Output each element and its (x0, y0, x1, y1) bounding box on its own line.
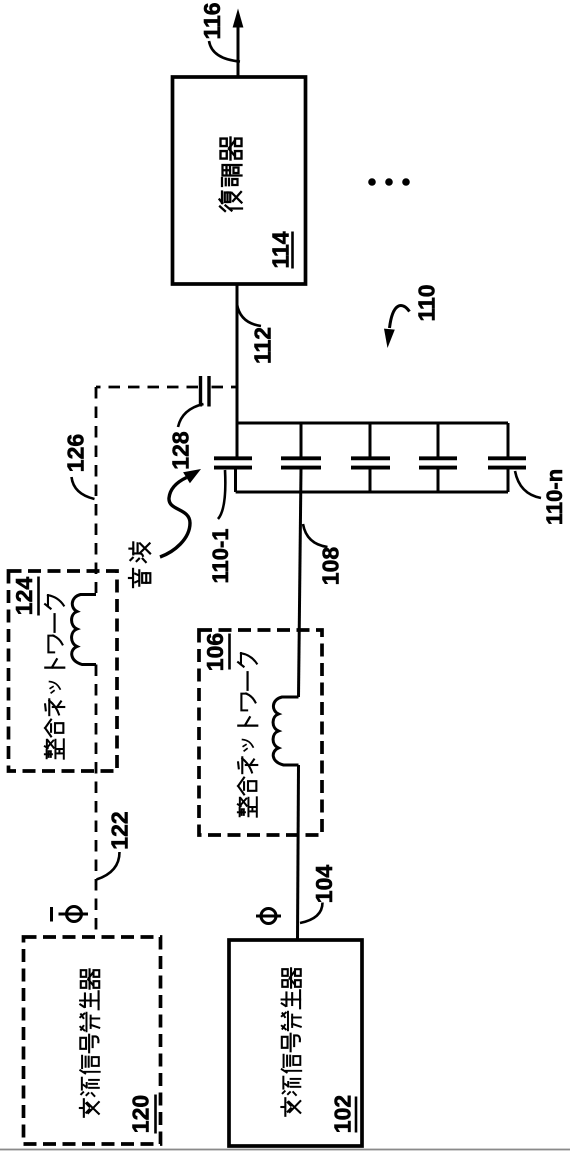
dashed wire 122 below L124 (95, 665, 98, 938)
svg-text:122: 122 (107, 811, 133, 849)
transducer element 110-1 bottom stub (234, 469, 237, 492)
transducer bottom bus wire (236, 491, 508, 494)
svg-text:106: 106 (202, 633, 228, 671)
acoustic wave squiggle arrow (160, 478, 190, 558)
leader to 110-n (515, 471, 541, 498)
svg-text:126: 126 (63, 434, 89, 472)
inductor L124 coil (72, 595, 96, 665)
curved arrow for 110 (390, 306, 410, 328)
matching network box 106 (199, 630, 322, 835)
svg-text:110-1: 110-1 (208, 528, 233, 583)
leader to 116 (209, 41, 240, 62)
wire 104 from L106 to generator 102 (298, 765, 299, 940)
AC signal generator box 102 (229, 940, 362, 1146)
transducer element 2 plates (281, 458, 321, 467)
arrowhead 116 (233, 9, 244, 28)
AC signal generator box 120 (24, 937, 161, 1144)
transducer top bus wire (236, 422, 508, 425)
svg-text:114: 114 (268, 231, 294, 268)
svg-text:110-n: 110-n (542, 469, 567, 525)
generator 120 label 交流信号発生器 (80, 969, 100, 1116)
svg-text:128: 128 (168, 431, 194, 470)
leader to 110-1 (218, 470, 225, 519)
leader to 104 (300, 903, 323, 924)
underline of 124 (37, 577, 40, 616)
phase symbol phi at generator 102 (256, 909, 281, 924)
underline of 106 (228, 634, 231, 670)
svg-text:108: 108 (318, 547, 344, 586)
matching network 124 label 整合ネットワーク (45, 595, 64, 759)
svg-text:120: 120 (128, 1095, 154, 1133)
phase symbol phi-bar at generator 120 (52, 907, 89, 922)
transducer element 110-n stubs (507, 423, 510, 492)
leader to 112 (237, 304, 261, 326)
matching network 106 label 整合ネットワーク (238, 653, 257, 817)
transducer element 3 plates (351, 458, 390, 467)
wire 108 (299, 469, 302, 697)
transducer element 4 stubs (437, 423, 440, 492)
transducer element 110-1 plates (214, 458, 252, 467)
acoustic wave label 音波 (129, 542, 150, 587)
wire 116 output (237, 27, 240, 77)
dashed capacitor 128 plates (201, 376, 210, 407)
svg-text:124: 124 (11, 577, 37, 616)
underline of 120 (154, 1095, 157, 1134)
underline of 114 (291, 232, 294, 269)
scan edge artifact (0, 1149, 570, 1151)
leader to 126 (72, 477, 95, 499)
ellipsis dots (368, 178, 410, 186)
svg-text:102: 102 (330, 1095, 356, 1133)
svg-text:112: 112 (250, 327, 276, 364)
demodulator label 復調器 (220, 138, 243, 212)
demodulator box U114 (173, 77, 306, 284)
wire 112 (236, 284, 239, 457)
dashed wire right of capacitor 128 (212, 386, 238, 389)
svg-text:116: 116 (199, 2, 225, 39)
leader to 108 (303, 524, 328, 547)
dashed wire 126 vertical (95, 387, 98, 593)
transducer element 3 stubs (369, 423, 372, 492)
transducer element 4 plates (419, 458, 457, 467)
inductor L106 coil (273, 697, 298, 765)
svg-text:104: 104 (311, 865, 337, 904)
leader to 128 (178, 404, 204, 427)
generator 102 label 交流信号発生器 (281, 968, 301, 1115)
underline of 102 (355, 1097, 358, 1133)
transducer element 2 stubs (300, 423, 303, 457)
matching network box 124 (9, 571, 118, 771)
dashed wire left of capacitor 128 (96, 386, 198, 389)
leader to 122 (97, 852, 120, 880)
svg-text:110: 110 (414, 284, 440, 321)
transducer element 110-n plates (488, 458, 526, 467)
